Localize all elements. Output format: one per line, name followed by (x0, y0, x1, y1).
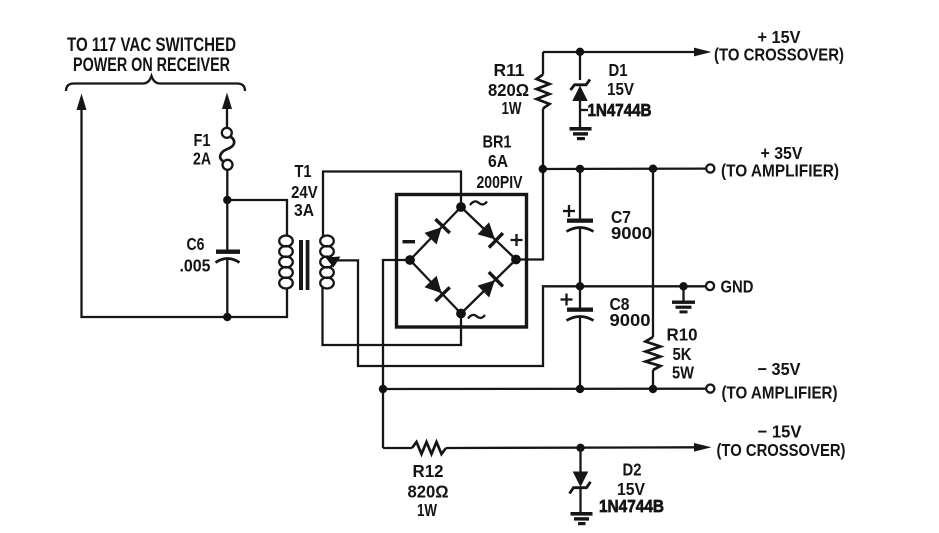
brace under header (66, 76, 245, 91)
plus sign bridge (511, 234, 523, 246)
label R10 5K 5W (667, 325, 698, 383)
label C6 .005 (180, 234, 211, 276)
label C8 9000 (610, 294, 651, 330)
capacitor C8 (567, 286, 594, 389)
node R10 bottom (649, 385, 657, 393)
svg-text:1W: 1W (502, 98, 522, 118)
label -15V (TO CROSSOVER) (717, 422, 846, 461)
ground symbol at GND terminal (672, 286, 695, 313)
svg-text:6A: 6A (488, 151, 508, 171)
label R12 820ohm 1W (408, 461, 449, 520)
svg-text:D2: D2 (623, 460, 642, 480)
wire: junction down to C6 (226, 200, 228, 250)
node junction at C6 bottom (223, 313, 231, 321)
node junction GND at capacitors (576, 282, 584, 290)
diode BR1 bottom-right (478, 272, 503, 297)
svg-text:1W: 1W (417, 500, 437, 520)
svg-text:D1: D1 (609, 60, 628, 80)
diode BR1 bottom-left (425, 276, 450, 301)
svg-text:1N4744B: 1N4744B (588, 100, 652, 120)
svg-text:− 15V: − 15V (758, 422, 802, 442)
terminal circle -35V (706, 385, 714, 393)
svg-text:F1: F1 (194, 130, 211, 150)
svg-text:3A: 3A (294, 200, 314, 220)
node +35V at R10 (649, 165, 657, 173)
svg-text:15V: 15V (607, 79, 634, 99)
node junction GND at ground symbol (679, 282, 687, 290)
wire: bridge minus node to -35V rail and R12 (383, 260, 410, 448)
terminal circle +35V (706, 164, 714, 172)
capacitor C6 (216, 250, 241, 318)
diode BR1 top-right (478, 222, 503, 247)
label F1 2A (193, 130, 211, 169)
resistor R11 (537, 75, 550, 109)
arrow -15V (694, 443, 712, 452)
svg-text:(TO CROSSOVER): (TO CROSSOVER) (714, 45, 844, 65)
bridge diamond wires (410, 207, 516, 314)
svg-text:GND: GND (721, 277, 754, 297)
capacitor C7 (567, 169, 594, 286)
label D1 15V 1N4744B (581, 60, 652, 120)
node junction at fuse bottom (223, 196, 231, 204)
svg-text:820Ω: 820Ω (488, 80, 529, 100)
AC tilde bottom (468, 315, 485, 319)
label BR1 6A 200PIV (477, 132, 523, 193)
label C7 9000 (611, 207, 652, 243)
node -15V at D2 (576, 444, 584, 452)
zener diode D1 (571, 52, 591, 127)
svg-text:1N4744B: 1N4744B (599, 496, 664, 516)
transformer T1 (279, 236, 334, 291)
svg-text:200PIV: 200PIV (477, 172, 523, 192)
svg-text:R11: R11 (494, 60, 525, 80)
node: center tap (326, 257, 341, 268)
svg-text:(TO CROSSOVER): (TO CROSSOVER) (717, 440, 846, 460)
wire: secondary top AC to bridge top (323, 172, 461, 237)
wire: left AC lead with up arrow (77, 94, 288, 318)
svg-text:24V: 24V (291, 182, 318, 202)
svg-text:R10: R10 (667, 325, 698, 345)
terminal circle GND (706, 282, 714, 290)
label R11 820ohm 1W (488, 60, 529, 118)
svg-text:BR1: BR1 (483, 132, 512, 152)
svg-text:(TO AMPLIFIER): (TO AMPLIFIER) (722, 383, 838, 403)
node bridge bottom (456, 309, 466, 319)
svg-text:5K: 5K (673, 344, 692, 364)
svg-text:C6: C6 (187, 234, 205, 254)
label -35V (TO AMPLIFIER) (722, 359, 838, 403)
svg-text:(TO AMPLIFIER): (TO AMPLIFIER) (721, 161, 839, 181)
wire: -35V rail (383, 388, 706, 391)
node +15V at D1 (576, 48, 584, 56)
svg-text:2A: 2A (193, 149, 211, 169)
wire: center tap to GND rail (332, 260, 706, 366)
node bridge left (405, 255, 415, 265)
svg-text:.005: .005 (180, 256, 211, 276)
wire: junction to primary top (227, 200, 287, 236)
wire: +15V line with arrow (543, 48, 712, 57)
minus sign bridge (403, 240, 416, 243)
bridge rectifier BR1 box (397, 195, 527, 328)
svg-text:9000: 9000 (610, 310, 651, 330)
plus sign C7 (563, 205, 575, 217)
label D2 15V 1N4744B (599, 460, 664, 517)
wire: +35V rail (543, 167, 706, 170)
node bridge right (511, 255, 521, 265)
svg-text:− 35V: − 35V (758, 359, 801, 379)
ground symbol at D2 (571, 512, 593, 525)
node bridge top (456, 202, 466, 212)
svg-text:T1: T1 (295, 161, 312, 181)
svg-text:820Ω: 820Ω (408, 482, 449, 502)
node label: TO 117 VAC SWITCHED POWER ON RECEIVER (67, 35, 236, 76)
ground symbol at D1 (570, 127, 592, 140)
wire: right AC lead with up arrow (222, 93, 232, 128)
wire: bridge plus node up through R11 to +15V (516, 169, 543, 260)
zener diode D2 (570, 448, 591, 512)
svg-text:R12: R12 (413, 461, 444, 481)
svg-text:9000: 9000 (611, 223, 652, 243)
node C8 bottom (576, 385, 584, 393)
resistor R12 (383, 442, 698, 454)
svg-text:TO 117 VAC SWITCHED: TO 117 VAC SWITCHED (67, 35, 236, 56)
label T1 24V 3A (291, 161, 318, 220)
svg-text:5W: 5W (672, 363, 694, 383)
plus sign C8 (561, 294, 573, 306)
node junction -35V (379, 385, 387, 393)
resistor R10 (646, 169, 661, 389)
label +35V (TO AMPLIFIER) (721, 143, 839, 181)
label +15V (TO CROSSOVER) (714, 27, 844, 65)
fuse F1 (220, 128, 234, 200)
node +35V at bridge leg (539, 165, 547, 173)
node +35V at C7 (576, 165, 584, 173)
AC tilde top (470, 201, 487, 205)
diode BR1 top-left (425, 219, 450, 244)
wire: secondary bottom AC to bridge bottom (323, 288, 462, 346)
